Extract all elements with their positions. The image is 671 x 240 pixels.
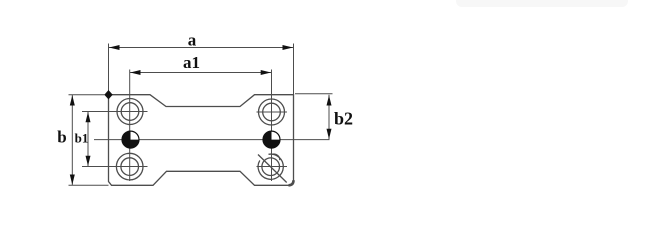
hole top-right inner bbox=[263, 103, 281, 121]
vertical centerline right bbox=[271, 70, 273, 182]
fillet bottom right (thick) bbox=[289, 180, 294, 185]
thread runout hook top-right bbox=[273, 154, 280, 160]
dimension a1 bbox=[130, 72, 272, 74]
center-of-mass dot right bbox=[263, 131, 280, 148]
slash through bottom-right hole bbox=[258, 155, 287, 183]
vertical centerline left bbox=[129, 70, 131, 182]
dimension b1 bbox=[87, 112, 89, 167]
svg-text:a: a bbox=[188, 31, 197, 50]
hole bottom-right outer thread arc bbox=[258, 154, 283, 179]
plate outline bbox=[109, 95, 294, 186]
svg-text:b: b bbox=[57, 128, 66, 147]
dimension b2 bbox=[295, 94, 333, 140]
dimension a bbox=[109, 44, 294, 95]
center-of-mass dot left bbox=[122, 131, 139, 148]
dimension b bbox=[69, 95, 109, 186]
horizontal middle centerline bbox=[94, 139, 330, 141]
svg-text:a1: a1 bbox=[183, 53, 200, 72]
diamond corner marker bbox=[104, 90, 112, 99]
svg-text:b2: b2 bbox=[334, 109, 353, 129]
centerlines bbox=[82, 70, 330, 182]
hole bottom-right inner bbox=[262, 158, 280, 176]
top-right hole horizontal crosshair bbox=[257, 111, 288, 113]
bottom-left hole horizontal crosshair / b1 bottom extension bbox=[82, 166, 148, 168]
hole top-left outer bbox=[117, 99, 143, 125]
hole bottom-left outer bbox=[116, 153, 143, 180]
holes bbox=[116, 99, 286, 183]
bottom-right hole horizontal crosshair bbox=[257, 166, 288, 168]
faint grey bar top right bbox=[456, 0, 628, 7]
svg-text:b1: b1 bbox=[75, 131, 89, 146]
top-left hole horizontal crosshair / b1 top extension bbox=[82, 111, 148, 113]
hole bottom-left inner bbox=[121, 158, 139, 176]
hole top-right outer bbox=[259, 99, 285, 125]
hole top-left inner bbox=[121, 103, 139, 121]
